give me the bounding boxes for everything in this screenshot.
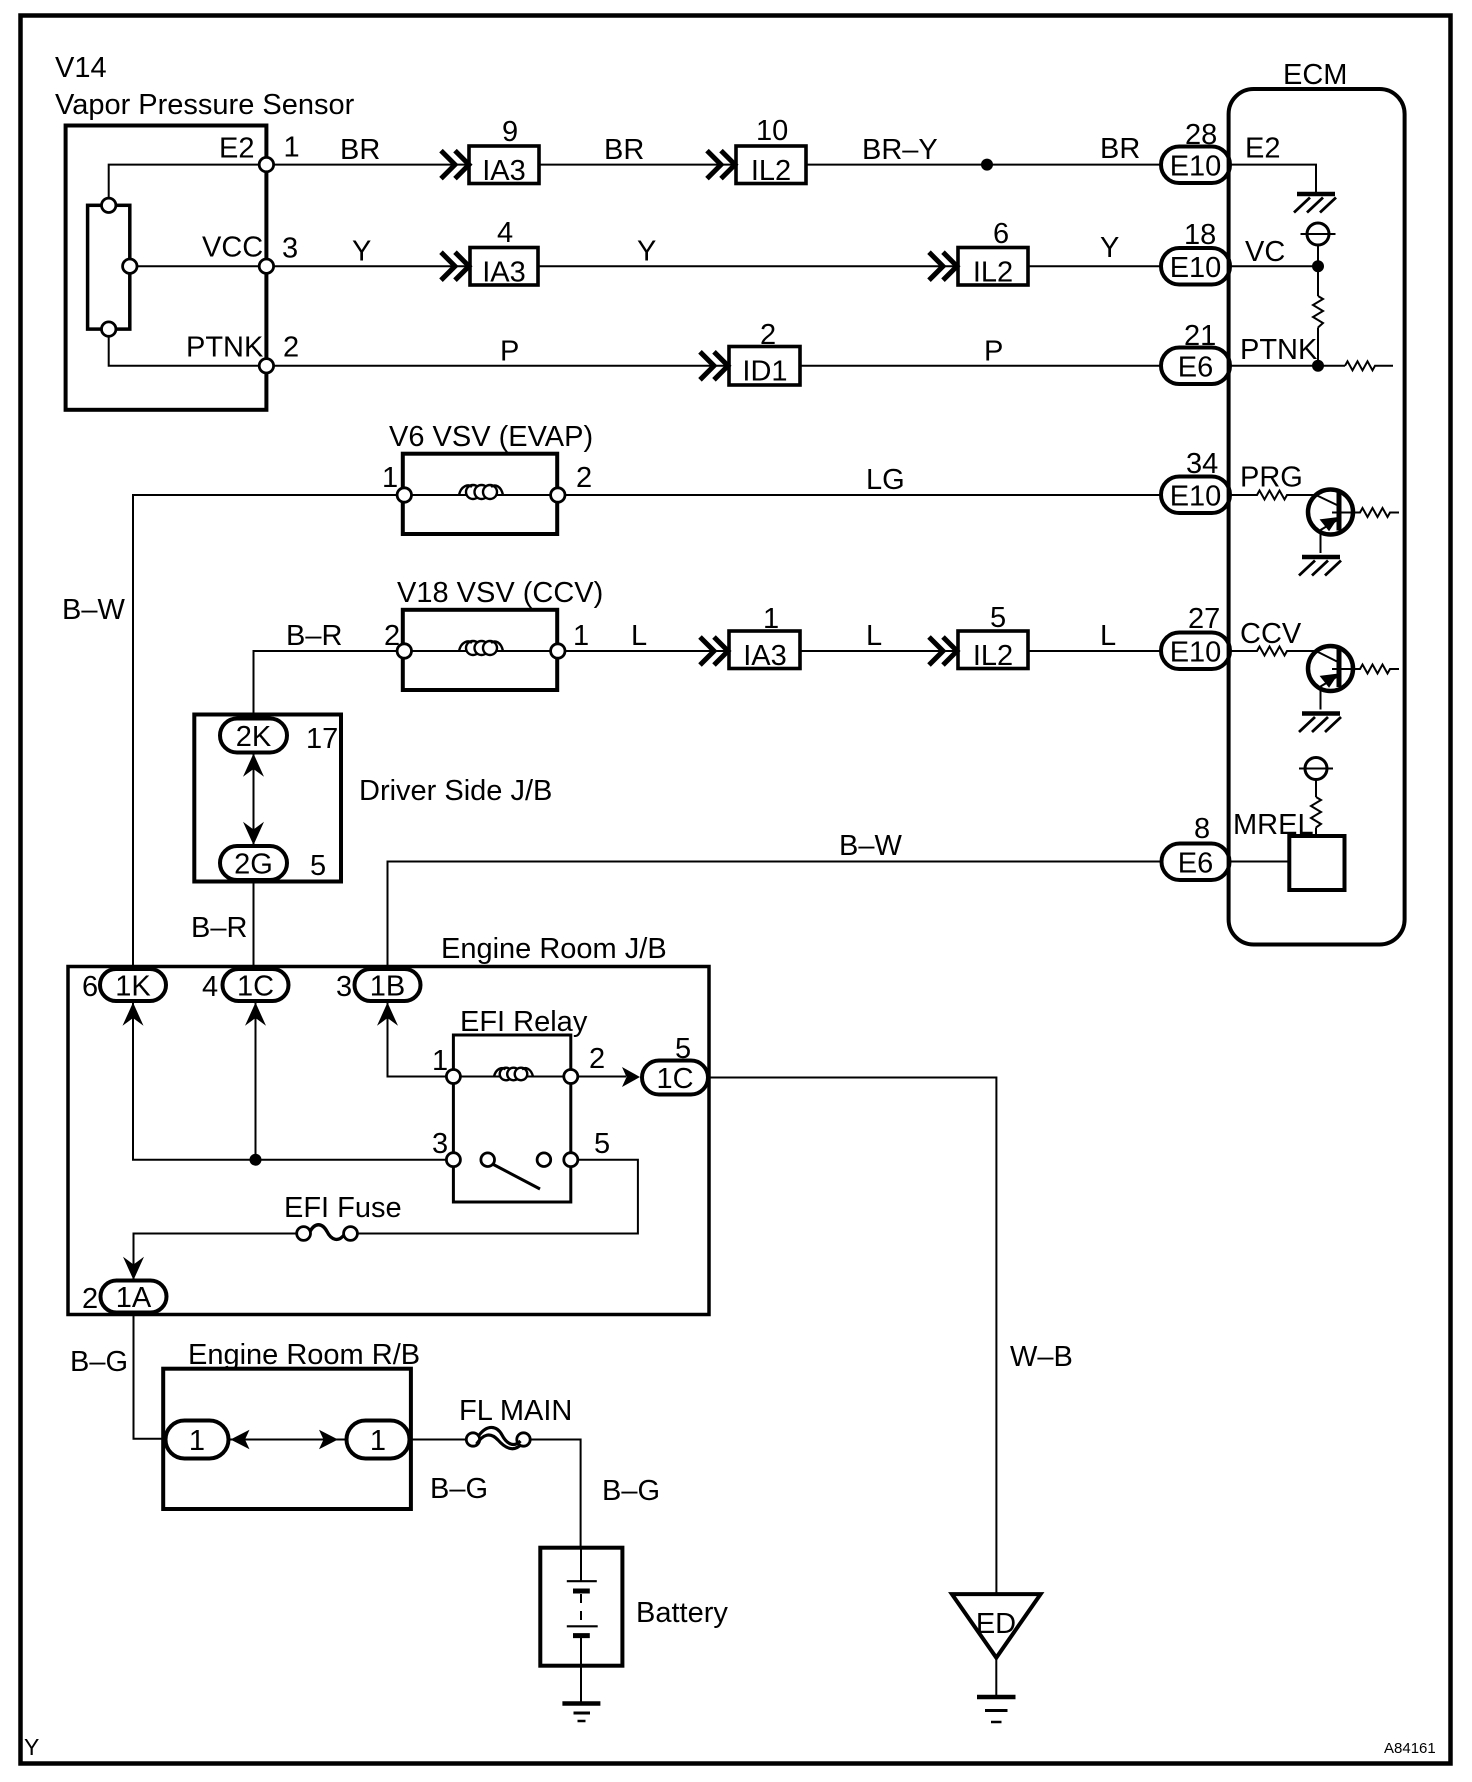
junction block IL2 pin 10 label [756,115,788,147]
svg-text:VC: VC [1245,236,1285,268]
pin 2 label 1A [82,1283,98,1315]
pin 3 label relay switch [432,1128,448,1160]
connector arrows into IA3 row5 [700,637,728,665]
wire relay coil row internal [453,1076,570,1078]
wire label B-R vertical [191,912,247,944]
svg-text:L: L [631,620,647,652]
svg-text:IL2: IL2 [973,640,1013,672]
svg-text:1C: 1C [656,1063,693,1095]
switch contact circle right [537,1153,551,1167]
svg-text:PTNK: PTNK [1240,334,1318,366]
junction block IA3 pin 9 label [502,116,518,148]
svg-text:E10: E10 [1170,637,1222,669]
wire label Y third [1100,232,1119,264]
connector oval E10 row1 [1161,147,1230,184]
ground symbol ED [977,1697,1016,1722]
svg-text:B–W: B–W [62,594,125,626]
svg-text:Driver Side J/B: Driver Side J/B [359,775,552,807]
svg-text:B–G: B–G [430,1473,488,1505]
connector oval E6 row3 [1161,348,1230,385]
svg-text:1A: 1A [116,1282,152,1314]
component V6 VSV EVAP label [389,421,593,453]
svg-text:Y: Y [637,236,656,268]
wire B-R V18 pin2 to 2K [254,651,398,719]
svg-text:4: 4 [497,217,513,249]
svg-text:IL2: IL2 [973,257,1013,289]
wire BR-Y IL2 to E10 [806,164,1161,166]
pin 2 label relay [589,1043,605,1075]
wire resistor to MREL box [1315,828,1317,837]
component Engine Room R/B label [188,1339,420,1371]
wire P ID1 to E6 [800,365,1161,367]
component FL MAIN label [459,1395,572,1427]
wire L V18 pin1 to IA3 [565,650,729,652]
pin 1 of V14 [284,132,300,164]
component V6 VSV box [403,454,557,534]
pin CCV label inside ECM [1240,618,1302,650]
svg-text:5: 5 [310,850,326,882]
junction block IL2 row2 [958,248,1028,289]
pin 5 label 1C right [675,1033,691,1065]
svg-text:L: L [866,620,882,652]
svg-text:17: 17 [306,723,338,755]
svg-text:6: 6 [82,971,98,1003]
sensor element (pressure transducer) [88,205,130,329]
wire E2 to internal ground [1230,165,1316,192]
node junction dot PTNK [1312,360,1324,372]
arrow down into 2G [243,822,264,845]
wire Y row V14 pin3 to IA3 [274,265,470,267]
svg-text:A84161: A84161 [1384,1740,1436,1757]
component EFI Fuse label [284,1192,402,1224]
svg-text:1: 1 [284,132,300,164]
connector E10 pin 27 number [1188,603,1220,635]
svg-text:E6: E6 [1178,848,1213,880]
svg-text:LG: LG [866,464,905,496]
connector oval 1C top [223,969,289,1003]
transistor CCV driver [1308,646,1353,691]
svg-text:BR–Y: BR–Y [862,134,938,166]
svg-text:PRG: PRG [1240,462,1303,494]
wire label P first [500,336,519,368]
wire label Y second [637,236,656,268]
node junction dot VC [1312,260,1324,272]
svg-text:EFI Relay: EFI Relay [460,1006,588,1038]
wire B-G 1A down to R/B [134,1313,166,1439]
resistor base CCV [1230,647,1316,656]
component Battery box [540,1548,622,1666]
pin 3 of V14 [282,233,298,265]
junction block IL2 row5 [958,631,1028,672]
connector oval 1C right [642,1061,708,1096]
svg-text:1: 1 [432,1045,448,1077]
svg-text:9: 9 [502,116,518,148]
svg-text:1: 1 [370,1425,386,1457]
arrow up into 1B [377,1003,398,1026]
ground point ED triangle [952,1594,1041,1658]
wire 2K to 2G internal [253,753,255,845]
svg-text:Y: Y [352,236,371,268]
svg-text:E10: E10 [1170,481,1222,513]
svg-text:VCC: VCC [202,232,263,264]
component Battery label [636,1597,728,1629]
node pin circle PTNK [259,359,273,373]
arrow up into 1C [245,1003,266,1026]
svg-text:IA3: IA3 [482,155,526,187]
svg-text:Engine Room R/B: Engine Room R/B [188,1339,420,1371]
connector oval E10 row5 [1161,633,1230,670]
svg-text:E6: E6 [1178,352,1213,384]
junction block IA3 row1 [469,146,539,187]
ground symbol battery [562,1704,600,1722]
component Driver Side J/B label [359,775,552,807]
svg-text:IL2: IL2 [751,155,791,187]
power symbol MREL [1299,758,1333,780]
connector E6 pin 21 number [1184,320,1216,352]
node element top circle [102,198,116,212]
connector E10 pin 34 number [1186,448,1218,480]
node pin circle V18 pin2 [397,644,411,658]
svg-text:2: 2 [283,332,299,364]
svg-text:2: 2 [589,1043,605,1075]
wire 1K down to switch row [133,1001,453,1160]
pin VCC terminal label [202,232,263,264]
wire ED apex to ground [995,1658,997,1695]
connector arrows into IA3 row1 [441,151,469,179]
wire label BR [340,134,380,166]
connector oval 2K [220,719,287,754]
pin 1 label relay [432,1045,448,1077]
junction block IL2 pin 6 label [993,218,1009,250]
svg-text:Y: Y [1100,232,1119,264]
pin PTNK terminal label [186,332,264,364]
svg-text:E2: E2 [219,133,254,165]
svg-text:Battery: Battery [636,1597,728,1629]
wire B-R 2G down to 1C [253,880,255,970]
svg-text:1: 1 [573,620,589,652]
component ECM label [1283,59,1347,91]
wire L IL2 to E10 row5 [1028,650,1161,652]
node pin circle V6 pin2 [551,488,565,502]
node element bottom circle [102,322,116,336]
node relay pin5 circle [564,1153,578,1167]
fusible link FL MAIN symbol [466,1427,530,1448]
junction block IL2 row1 [736,146,806,187]
wire BR row V14 pin1 to IA3 [274,164,469,166]
node pin circle E2 [259,157,273,171]
svg-text:ID1: ID1 [742,356,787,388]
wire label Y first [352,236,371,268]
pin 2 label V6 VSV [576,462,592,494]
wire label L third [1100,620,1116,652]
connector oval 1K [100,969,166,1003]
svg-text:Y: Y [24,1734,39,1760]
connector oval E6 row MREL [1162,844,1230,881]
wire PRG emitter to ground [1320,530,1322,553]
junction block IA3 row5 [729,631,800,672]
wire internal V6 VSV [412,494,551,496]
svg-text:P: P [984,336,1003,368]
junction block IA3 row2 [470,248,538,289]
wire label L second [866,620,882,652]
wire label B-W left column [62,594,125,626]
wire power to resistor MREL [1315,780,1317,798]
node relay pin1 circle [446,1070,460,1084]
arrow into 1C right [622,1067,640,1087]
wire Y IL2 to E10 row2 [1028,265,1161,267]
connector arrows into IL2 row2 [929,252,957,280]
wire label LG [866,464,905,496]
svg-text:Engine Room J/B: Engine Room J/B [441,933,667,965]
connector arrows into IL2 row1 [707,151,735,179]
svg-text:3: 3 [432,1128,448,1160]
wire label B-G right [602,1475,660,1507]
arrow up into 1K [123,1003,144,1026]
component Engine Room J/B box [68,967,709,1315]
svg-text:E10: E10 [1170,151,1222,183]
svg-text:V14: V14 [55,52,107,84]
svg-text:PTNK: PTNK [186,332,264,364]
pin E2 terminal label [219,133,254,165]
svg-text:1: 1 [189,1425,205,1457]
svg-text:W–B: W–B [1010,1341,1073,1373]
wire internal V18 VSV [412,650,551,652]
svg-text:BR: BR [604,134,644,166]
wire VC to junction [1230,245,1318,296]
pin 2 label V18 VSV [384,620,400,652]
resistor base PRG [1230,491,1316,500]
component V14 sensor box [66,126,267,410]
wire label BR-Y [862,134,938,166]
pin 6 label 1K [82,971,98,1003]
component MREL relay block [1289,836,1344,890]
wire LG V6 pin2 to E10 34 [565,494,1161,496]
pin MREL label inside ECM [1233,809,1314,841]
svg-text:2: 2 [82,1283,98,1315]
inductor relay coil [494,1068,533,1081]
junction block IL2 pin 5 label [990,602,1006,634]
svg-text:2: 2 [576,462,592,494]
node pin circle VCC [259,259,273,273]
wire resistor to PTNK node [1317,328,1319,366]
svg-text:8: 8 [1194,813,1210,845]
wire element top to E2 pin [109,165,259,199]
svg-text:B–G: B–G [602,1475,660,1507]
svg-text:B–R: B–R [191,912,247,944]
pin E2 label inside ECM [1245,133,1280,165]
wire FL MAIN to battery [530,1440,580,1549]
wire label P second [984,336,1003,368]
resistor horizontal PTNK [1345,361,1393,370]
svg-text:2G: 2G [234,849,273,881]
component Engine Room J/B label [441,933,667,965]
connector oval E10 row4 [1161,477,1230,514]
svg-text:L: L [1100,620,1116,652]
svg-text:V18 VSV (CCV): V18 VSV (CCV) [397,577,603,609]
wire label BR third [1100,133,1140,165]
wire fuse to 1A [134,1234,297,1282]
wire between R/B ovals [229,1439,347,1441]
connector oval 1 left R/B [166,1421,229,1459]
node junction dot switch row [250,1154,262,1166]
connector oval 2G [220,846,287,881]
connector E10 pin 18 number [1184,219,1216,251]
pin 1 label V6 VSV [382,462,398,494]
svg-text:5: 5 [594,1128,610,1160]
node junction dot row1 [981,159,993,171]
junction block IA3 pin 4 label [497,217,513,249]
junction block IA3 pin 1 label [763,603,779,635]
component EFI Relay label [460,1006,588,1038]
wire element bottom to PTNK pin [109,336,259,366]
connector oval 1B [355,969,421,1003]
svg-text:1C: 1C [237,971,274,1003]
wire label B-G mid [430,1473,488,1505]
wire pin5 to fuse row [358,1160,638,1234]
wire label B-W MREL row [839,830,902,862]
wire B-W MREL row to 1B column [388,862,1162,971]
pin 4 label 1C [202,971,218,1003]
transistor PRG driver [1308,490,1353,535]
svg-text:CCV: CCV [1240,618,1302,650]
svg-text:1B: 1B [370,971,405,1003]
wire element mid to VCC pin [137,265,259,267]
svg-text:Vapor Pressure Sensor: Vapor Pressure Sensor [55,89,355,121]
switch contact circle left [481,1153,495,1167]
connector oval E10 row2 [1161,248,1230,285]
wire R/B to FL MAIN [410,1439,467,1441]
wire Y IA3 to IL2 [538,265,958,267]
ground symbol E2 internal [1294,194,1336,213]
connector E10 pin 28 number [1185,119,1217,151]
wire battery to ground [580,1666,582,1702]
connector oval 1A [101,1281,167,1315]
svg-text:IA3: IA3 [482,257,526,289]
connector arrows into IA3 row2 [441,252,469,280]
wire label B-R row5 [286,620,342,652]
svg-text:ED: ED [976,1608,1016,1640]
pin PTNK label inside ECM [1240,334,1318,366]
wire W-B 1C to ED column [708,1078,996,1595]
ground symbol PRG [1299,557,1341,576]
wire 1B down to relay pin1 [388,1001,454,1077]
node relay pin3 circle [446,1153,460,1167]
svg-text:ECM: ECM [1283,59,1347,91]
arrow down into 1A [123,1257,144,1280]
wire B-W from V6 pin1 down left column [133,495,397,969]
svg-text:BR: BR [340,134,380,166]
power symbol VC [1301,223,1336,245]
resistor vertical MREL [1311,797,1321,828]
junction block ID1 pin 2 label [760,319,776,351]
wire CCV emitter to ground [1320,687,1322,710]
arrow up into 2K [243,754,264,777]
ground symbol CCV [1299,714,1341,733]
pin 5 label relay switch [594,1128,610,1160]
svg-text:IA3: IA3 [743,640,787,672]
component Driver Side J/B box [194,715,341,882]
node pin circle V18 pin1 [551,644,565,658]
svg-text:FL MAIN: FL MAIN [459,1395,572,1427]
svg-text:2K: 2K [236,721,272,753]
wire relay pin2 to 1C oval [578,1076,626,1078]
connector oval 1 right R/B [347,1421,410,1459]
wire 1C down to junction [255,1001,257,1160]
inductor coil V18 VSV [459,641,503,655]
node relay pin2 circle [564,1070,578,1084]
svg-text:6: 6 [993,218,1009,250]
pin PRG label inside ECM [1240,462,1303,494]
resistor collector PRG [1339,508,1399,517]
wire PTNK into ECM [1230,365,1345,367]
component Engine Room R/B box [163,1369,411,1509]
svg-text:27: 27 [1188,603,1220,635]
svg-text:V6 VSV (EVAP): V6 VSV (EVAP) [389,421,593,453]
svg-text:1: 1 [382,462,398,494]
component EFI Relay box [453,1035,570,1202]
pin 1 label V18 VSV [573,620,589,652]
wire E6 to MREL box [1230,861,1290,863]
component ECM box [1229,89,1405,945]
inductor coil V6 VSV [459,485,503,499]
svg-text:3: 3 [282,233,298,265]
resistor vertical VC to PTNK [1313,296,1323,328]
svg-text:E2: E2 [1245,133,1280,165]
arrow right into oval 1 right [319,1430,338,1449]
wire L IA3 to IL2 row5 [800,650,958,652]
svg-text:E10: E10 [1170,252,1222,284]
arrow left into oval 1 left [231,1430,250,1449]
svg-text:B–G: B–G [70,1346,128,1378]
connector arrows into ID1 row3 [700,352,728,380]
svg-text:B–R: B–R [286,620,342,652]
svg-text:P: P [500,336,519,368]
fuse EFI symbol [297,1225,358,1241]
junction block ID1 row3 [729,347,800,388]
wire label W-B [1010,1341,1073,1373]
component V18 VSV box [403,610,557,690]
node pin circle V6 pin1 [397,488,411,502]
svg-text:1K: 1K [115,971,151,1003]
battery cell symbol [567,1548,598,1666]
svg-text:B–W: B–W [839,830,902,862]
wire P row V14 pin2 to ID1 [274,365,729,367]
pin 17 label [306,723,338,755]
wire BR IA3 to IL2 [539,164,736,166]
node element right circle [123,259,137,273]
switch blade [493,1164,541,1189]
wire label BR second [604,134,644,166]
svg-text:BR: BR [1100,133,1140,165]
component V14 Vapor Pressure Sensor label [55,52,355,121]
pin VC label inside ECM [1245,236,1285,268]
pin 3 label 1B [336,971,352,1003]
svg-text:EFI Fuse: EFI Fuse [284,1192,402,1224]
connector arrows into IL2 row5 [929,637,957,665]
wire label L first [631,620,647,652]
pin 2 of V14 [283,332,299,364]
svg-text:10: 10 [756,115,788,147]
svg-text:4: 4 [202,971,218,1003]
connector E6 pin 8 number [1194,813,1210,845]
pin 5 label 2G [310,850,326,882]
component V18 VSV CCV label [397,577,603,609]
svg-text:3: 3 [336,971,352,1003]
resistor collector CCV [1339,665,1399,674]
wire label B-G left [70,1346,128,1378]
